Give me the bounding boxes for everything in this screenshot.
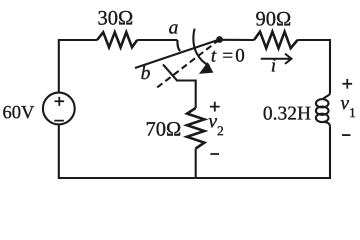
source - mark <box>54 120 64 122</box>
svg-text:t=0: t=0 <box>211 46 245 67</box>
resistor 70Ω <box>187 108 204 149</box>
current arrow i shaft <box>261 54 292 64</box>
svg-text:v2: v2 <box>208 111 223 138</box>
label v2 plus <box>210 102 220 112</box>
svg-text:a: a <box>169 17 179 38</box>
svg-text:70Ω: 70Ω <box>146 119 182 141</box>
wire from pivot to 90Ω <box>223 39 255 41</box>
voltage source 60V circle <box>43 93 75 125</box>
switch pivot node <box>216 36 223 43</box>
wire from 30Ω to contact a <box>137 40 180 51</box>
svg-text:i: i <box>271 56 276 77</box>
svg-text:v1: v1 <box>340 93 355 120</box>
label v1 minus <box>342 134 350 136</box>
source + mark <box>54 97 64 106</box>
svg-text:30Ω: 30Ω <box>97 8 133 30</box>
contact b stub <box>163 65 196 109</box>
wire top-left from source to node a <box>59 40 97 93</box>
wire bottom-left <box>59 124 196 178</box>
svg-text:90Ω: 90Ω <box>255 8 291 30</box>
wire middle branch below 70Ω <box>195 149 197 179</box>
wire from inductor to bottom-right corner <box>196 127 330 178</box>
svg-text:0.32H: 0.32H <box>263 104 311 125</box>
resistor 90Ω <box>254 32 298 49</box>
switch arrowhead t=0 <box>199 62 214 74</box>
switch blade from pivot toward a <box>135 40 220 69</box>
resistor 30Ω <box>97 32 137 47</box>
label v1 plus <box>342 79 352 89</box>
dashed throw position toward b <box>155 40 220 90</box>
wire from 90Ω to top-right corner and down to inductor <box>298 40 331 93</box>
inductor 0.32H coil <box>323 93 330 100</box>
svg-text:60V: 60V <box>2 103 35 123</box>
label v2 minus <box>210 153 219 155</box>
svg-text:b: b <box>141 63 151 84</box>
switch action arc t=0 <box>193 29 209 66</box>
